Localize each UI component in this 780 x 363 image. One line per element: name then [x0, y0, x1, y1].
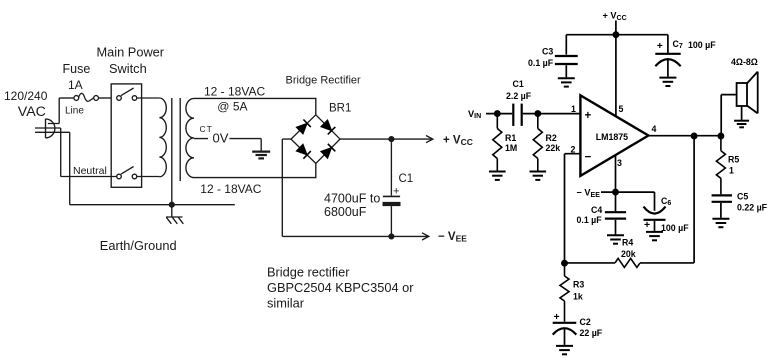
svg-text:5: 5	[619, 104, 624, 114]
svg-text:+: +	[554, 311, 560, 323]
wire output pin 4	[648, 135, 721, 137]
diode D3 (L to B)	[296, 144, 311, 159]
svg-text:Main Power: Main Power	[97, 45, 165, 60]
svg-text:C1: C1	[399, 173, 414, 185]
pin 1 noninverting input	[571, 104, 592, 122]
wire input rail	[486, 113, 580, 115]
resistor R4 20k	[565, 258, 695, 267]
svg-text:0V: 0V	[213, 131, 229, 146]
svg-text:CT: CT	[200, 124, 213, 134]
wire secondary bottom to bridge	[194, 163, 316, 177]
label C1 value 4700uF to 6800uF	[324, 192, 380, 219]
svg-text:− VEE: − VEE	[438, 231, 467, 244]
svg-text:−: −	[585, 151, 592, 163]
svg-text:0.22 µF: 0.22 µF	[737, 203, 768, 213]
svg-text:1: 1	[729, 166, 734, 176]
label R3 1k	[573, 280, 584, 302]
ground R2	[530, 172, 547, 180]
pin 2 inverting input	[571, 144, 592, 163]
label R1 1M	[505, 133, 517, 153]
ground R1	[489, 172, 506, 180]
svg-text:Bridge Rectifier: Bridge Rectifier	[286, 75, 362, 87]
fuse F1 1A	[59, 93, 111, 101]
ground C2	[556, 346, 573, 354]
capacitor C1 4700uF (polarized)	[383, 139, 414, 236]
svg-text:BR1: BR1	[329, 103, 351, 115]
label C5 0.22uF	[737, 191, 768, 212]
node VCC rail junction	[613, 32, 618, 37]
capacitor C6 100uF (polarized)	[644, 192, 666, 231]
svg-text:R2: R2	[546, 133, 557, 143]
label 12 - 18VAC @ 5A (top secondary)	[204, 85, 265, 114]
switch pole line side	[117, 88, 137, 100]
svg-text:+ VCC: + VCC	[443, 135, 473, 148]
bridge rectifier BR1 diamond	[291, 115, 340, 164]
svg-text:Fuse: Fuse	[63, 62, 91, 76]
resistor R1 1M	[493, 114, 502, 171]
wire VEE rail	[601, 191, 655, 193]
node output junction	[718, 133, 723, 138]
svg-text:22k: 22k	[546, 143, 561, 153]
svg-text:R4: R4	[622, 237, 633, 247]
wire output to speaker	[721, 95, 736, 136]
wire pin 2 input	[565, 154, 581, 264]
ground C5	[712, 219, 729, 227]
svg-text:1: 1	[571, 104, 576, 114]
label Main Power Switch	[97, 45, 165, 77]
switch pole neutral side	[117, 167, 137, 179]
resistor R5 1	[716, 136, 725, 194]
node earth junction	[169, 202, 174, 207]
svg-text:@ 5A: @ 5A	[217, 99, 247, 113]
svg-text:12 - 18VAC: 12 - 18VAC	[200, 182, 261, 196]
node feedback/R3 junction	[562, 261, 567, 266]
note Bridge rectifier GBPC2504 KBPC3504 or similar	[267, 265, 414, 311]
node VEE junction	[613, 190, 618, 195]
svg-text:+: +	[657, 40, 663, 52]
svg-text:+: +	[644, 219, 650, 231]
svg-text:4: 4	[652, 124, 657, 134]
wire switch to transformer primary bottom	[137, 176, 160, 178]
capacitor C3 0.1uF	[555, 35, 578, 78]
svg-text:LM1875: LM1875	[596, 132, 628, 142]
arrow -VEE	[422, 233, 429, 240]
diode D1 (L to T)	[296, 120, 311, 135]
wire neutral to switch	[61, 176, 117, 178]
node C1 bottom junction	[389, 234, 394, 239]
label 120/240 VAC	[4, 89, 48, 120]
ground C4	[607, 235, 624, 243]
label + C7 100uF	[657, 39, 716, 52]
wire pin 3 to VEE	[615, 155, 617, 211]
svg-text:+: +	[585, 110, 592, 122]
capacitor C1 2.2uF coupling	[513, 104, 521, 126]
svg-text:Neutral: Neutral	[73, 165, 107, 177]
main power switch box	[111, 84, 141, 187]
ground (center tap)	[252, 152, 270, 159]
svg-text:+: +	[393, 185, 399, 197]
svg-text:0.1 µF: 0.1 µF	[577, 215, 603, 225]
wire bridge negative to -VEE rail	[282, 139, 428, 236]
ground C3	[558, 78, 575, 86]
svg-text:4Ω-8Ω: 4Ω-8Ω	[731, 57, 758, 67]
label C3 0.1uF	[528, 46, 554, 68]
svg-text:Bridge rectifier: Bridge rectifier	[267, 265, 350, 280]
diode D2 (T to R)	[321, 120, 336, 134]
capacitor C5 0.22uF	[712, 195, 732, 217]
svg-text:6800uF: 6800uF	[324, 205, 367, 219]
label C6 + 100uF	[644, 196, 689, 233]
svg-text:4700uF to: 4700uF to	[324, 192, 380, 206]
svg-text:100 µF: 100 µF	[661, 223, 689, 233]
ground C7	[659, 78, 676, 86]
ground speaker	[734, 106, 749, 127]
AC plug	[35, 119, 70, 138]
svg-text:12 - 18VAC: 12 - 18VAC	[204, 85, 265, 99]
svg-text:2: 2	[571, 144, 576, 154]
capacitor C2 22uF (polarized)	[553, 323, 577, 345]
svg-text:R1: R1	[505, 133, 516, 143]
label Bridge Rectifier BR1	[286, 75, 362, 115]
wire plug line to fuse	[58, 98, 60, 124]
wire switch to transformer primary top	[137, 97, 160, 99]
resistor R3 1k	[560, 263, 569, 321]
svg-text:C5: C5	[737, 191, 748, 201]
svg-text:R5: R5	[728, 154, 739, 164]
node C1 top junction	[389, 137, 394, 142]
svg-text:C4: C4	[591, 205, 602, 215]
label Fuse 1A	[63, 62, 91, 92]
svg-text:Earth/Ground: Earth/Ground	[100, 238, 177, 253]
wire VCC rail	[566, 34, 668, 36]
svg-text:1k: 1k	[573, 291, 583, 301]
label R5 1	[728, 154, 739, 175]
op-amp U1 LM1875	[580, 95, 648, 175]
label C1 2.2uF	[506, 79, 532, 101]
svg-text:22 µF: 22 µF	[580, 328, 603, 338]
svg-text:VAC: VAC	[18, 104, 46, 120]
svg-text:C1: C1	[513, 79, 524, 89]
svg-text:100 µF: 100 µF	[688, 40, 716, 50]
transformer T1 primary winding	[159, 98, 166, 177]
wire secondary top to bridge	[194, 98, 316, 114]
diode D4 (B to R)	[321, 144, 336, 159]
label R2 22k	[546, 133, 561, 153]
transformer core	[172, 98, 180, 205]
svg-text:120/240: 120/240	[4, 89, 48, 103]
capacitor C4 0.1uF	[605, 212, 626, 234]
svg-text:Switch: Switch	[109, 61, 147, 76]
svg-text:0.1 µF: 0.1 µF	[528, 58, 554, 68]
arrow +VCC	[426, 136, 433, 143]
speaker 4-8 ohm	[737, 72, 758, 114]
node junction R2	[535, 111, 540, 116]
svg-text:3: 3	[617, 158, 622, 168]
svg-text:C3: C3	[542, 46, 553, 56]
svg-text:R3: R3	[573, 280, 584, 290]
svg-text:1A: 1A	[68, 78, 83, 92]
node input junction R1	[495, 111, 500, 116]
svg-text:C2: C2	[580, 317, 591, 327]
wire bridge positive to +VCC rail	[340, 138, 432, 140]
svg-text:2.2 µF: 2.2 µF	[506, 91, 532, 101]
wire VCC vertical to pin 5	[615, 21, 617, 117]
wire plug earth down	[69, 132, 71, 204]
label C4 0.1uF	[577, 205, 603, 225]
earth ground symbol (hatched)	[166, 205, 183, 224]
label R4 20k	[621, 237, 636, 259]
svg-text:GBPC2504 KBPC3504 or: GBPC2504 KBPC3504 or	[267, 280, 414, 295]
svg-text:Line: Line	[65, 106, 84, 117]
capacitor C7 100uF (polarized)	[655, 35, 680, 77]
wire earth/ground bus	[70, 204, 235, 206]
svg-text:similar: similar	[267, 295, 305, 310]
transformer T1 secondary winding	[186, 98, 194, 177]
wire center tap 0V	[194, 139, 261, 151]
label + C2 22uF	[554, 311, 603, 338]
resistor R2 22k	[533, 114, 542, 171]
wire plug neutral down	[60, 128, 62, 177]
svg-text:1M: 1M	[505, 143, 517, 153]
ground C6	[646, 232, 663, 240]
svg-text:20k: 20k	[621, 249, 636, 259]
node feedback junction	[692, 133, 697, 138]
wire feedback from output	[693, 136, 695, 263]
